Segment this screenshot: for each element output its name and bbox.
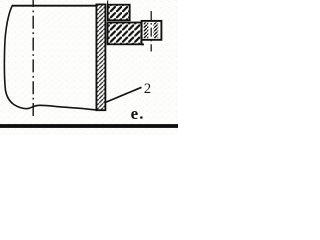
centerline (vertical dash-dot, axis of part) (32, 0, 34, 116)
boss left hatched wall (144, 22, 149, 38)
leader line to wall (105, 87, 141, 102)
top flange block (hatched) (108, 5, 130, 21)
bottom border bar (0, 124, 178, 128)
part body outline: freehand break line (left + bottom) (4, 6, 96, 110)
wall 2 (vertical hatched bar) (96, 4, 105, 110)
boss block with bolt hole (142, 21, 162, 40)
tick above bracket (107, 1, 109, 5)
clamp bar bottom edge extension (142, 43, 145, 45)
bolt axis centerline (150, 11, 152, 52)
part body outline: top edge (12, 5, 97, 7)
boss right hatched wall (153, 22, 158, 38)
svg-text:е: е (131, 104, 139, 123)
svg-text:2: 2 (144, 81, 151, 97)
clamp bar block (hatched) (108, 23, 142, 45)
label e period (140, 116, 142, 118)
